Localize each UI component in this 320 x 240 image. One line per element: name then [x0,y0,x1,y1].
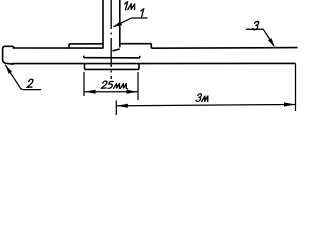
right plate top edge [120,43,152,45]
centerline (dash-dot) [110,0,112,79]
label 1m : digit 1 [123,2,127,10]
conductor top line left [13,47,104,49]
3m extension line right [295,64,297,112]
dim text 25mm : m [120,84,128,89]
conductor bottom line [12,62,296,64]
label 1m : letter m [128,4,136,10]
arrowhead 3m right [284,102,295,106]
item label 1 [140,9,144,17]
dim text 25mm : m [114,84,121,89]
leader line for 1 [114,18,148,27]
lower plate bottom edge [85,68,140,70]
lower plate right edge [138,64,140,70]
left plate left end [68,44,70,48]
conductor top line right [151,47,297,50]
sleeve lip tick right [139,56,141,58]
dim text 25mm : 5 [108,81,114,88]
dim text 3m : m [202,96,209,101]
arrowhead leader 3 [268,38,275,47]
lower plate left edge [84,64,86,70]
arrowhead 25mm right [127,90,138,94]
sleeve mid line [84,57,140,59]
arrowhead 3m left [117,104,128,108]
sleeve lip tick left [83,56,85,58]
weld fillet stub right [113,49,120,51]
dim text 25mm : 2 [101,81,108,88]
right plate right end [150,44,152,49]
3m extension line left [115,101,117,116]
left end cap [3,46,15,64]
vertical tube left line [102,0,104,48]
25mm extension line right [137,72,139,100]
dim text 3m : 3 [196,94,202,102]
item label 2 [27,79,34,87]
left plate top edge [69,43,103,45]
item label 3 [252,21,259,29]
vertical tube right line [119,0,121,47]
3m dimension line [116,105,295,106]
arrowhead leader 1 [113,21,122,27]
leader line for 2 [5,65,41,90]
25mm extension line left [83,72,85,96]
leader line for 3 [246,29,274,46]
arrowhead leader 2 [5,65,12,74]
arrowhead 25mm left [85,90,96,94]
25mm dimension line [84,91,138,93]
